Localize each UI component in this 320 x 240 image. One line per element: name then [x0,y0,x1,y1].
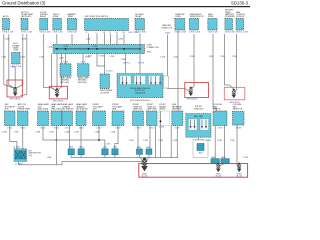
joint S1 JE03 [68,149,74,155]
JE02 cell 1 [15,151,20,159]
svg-text:1.25B: 1.25B [48,47,53,49]
wire E02 pin3 to JM01 [110,34,112,45]
header rule [0,6,250,7]
wire S1 to bus [70,155,72,158]
svg-text:7 E43: 7 E43 [63,62,69,64]
label label E43 [60,76,72,83]
junction JM01-4 [123,48,125,50]
connector R4 E22 [51,111,62,126]
svg-text:1.25B: 1.25B [232,56,237,58]
wire E25 to JE02 [22,126,24,149]
label label cluster [100,90,113,94]
label label E02 big [85,16,109,18]
connector E28 [189,19,198,31]
wire E02 pin5 to JM01 [123,34,125,45]
wire JE02 to bus [19,162,145,166]
label label R8 E18 [112,104,123,110]
svg-text:2 E24: 2 E24 [7,128,13,130]
joint connector JM01 band [53,45,145,54]
E11 pin 1 [190,120,192,129]
svg-text:1.25B: 1.25B [95,132,100,134]
connector box JE07 [193,140,208,157]
wire E02 pin0 to JM01 [88,34,90,45]
junction box E11 [186,114,211,138]
svg-text:1.25B: 1.25B [1,57,6,59]
wire E30 to GE04 [225,34,234,89]
wire E22 down [56,126,58,165]
wire E35 to JM01 [56,34,58,45]
svg-text:1.25B: 1.25B [39,57,44,59]
wire radar shield wire [160,111,162,158]
wire JM01 to GE02 a [52,54,56,91]
junction JM01-0 [56,48,58,50]
label GM03 label [142,173,148,177]
svg-text:(ACTUATOR): (ACTUATOR) [62,108,74,111]
svg-text:LAMP (LH): LAMP (LH) [133,108,143,111]
E11 pin 4 [205,120,207,129]
svg-text:A/CON: A/CON [3,15,10,18]
label label M1 [12,42,20,51]
junction box E/R [117,74,163,98]
wire E13 to S5 [137,126,139,149]
wire JM01 to E43 [65,54,67,64]
svg-text:6 M33 1.25B: 6 M33 1.25B [175,32,187,34]
wire E06 to GE01 b [9,34,15,89]
joint S5 JM03 [137,149,143,155]
label label E35 [53,14,60,18]
svg-text:Ground Distribution (3): Ground Distribution (3) [2,0,46,5]
wire E29 to R13 [213,34,217,111]
connector A/CON E06 [3,19,10,31]
wire E44b to S2 [80,126,82,149]
connector R7 E17 [93,111,106,126]
svg-text:1 E33 1.25B: 1 E33 1.25B [21,32,33,34]
wire JM01 to cluster b [97,54,105,67]
wire JM01 internal bus [55,48,142,50]
svg-text:1.25B: 1.25B [121,59,126,61]
svg-text:1.25B: 1.25B [49,132,54,134]
JE02 cell 2 [21,151,26,159]
svg-text:1.25B: 1.25B [118,39,123,41]
joint S3 JE05 [102,149,108,155]
joint S8 JM06 [221,159,229,164]
label label E34 [40,12,48,18]
label GM06 label [236,174,242,178]
svg-text:8: 8 [86,32,87,34]
svg-text:GE02 (E34): GE02 (E34) [53,101,64,103]
wire JM01 to GE02 c [58,54,62,91]
wire S2 to bus [80,155,82,158]
svg-text:(ACTUATOR): (ACTUATOR) [76,108,88,111]
label label R14 E38 [233,104,243,110]
E11 fuse cell 1 [189,119,198,130]
svg-text:1.25B: 1.25B [143,140,148,142]
svg-text:1.25B: 1.25B [36,132,41,134]
svg-text:(B+G5): (B+G5) [236,176,242,178]
junction box pin 7 [159,76,161,84]
svg-text:1.25B: 1.25B [86,39,91,41]
wire E14 pin2 down [155,126,157,158]
joint connector JE02 [14,149,27,162]
svg-text:(B+G4): (B+G4) [215,176,221,178]
highlight box GE04 [224,87,245,100]
svg-text:JE05: JE05 [103,147,107,149]
connector M33 [175,19,185,31]
wire R13b to S8 [224,126,226,159]
svg-text:3 E25: 3 E25 [20,128,26,130]
svg-text:6 E22: 6 E22 [54,128,60,130]
label label R7 E17 [93,104,104,110]
connector R5 E43b [62,111,73,126]
connector R10 E14 [147,111,158,126]
wire E31 to GE04 [234,34,236,92]
svg-text:1.25B: 1.25B [20,57,25,59]
joint S2 JE04 [78,149,84,155]
label label R5 E43b [62,103,74,110]
svg-text:1.25B: 1.25B [173,140,178,142]
label label A/CON E06 [3,15,10,18]
svg-text:JE06: JE06 [113,147,117,149]
svg-text:SNSR: SNSR [53,16,59,18]
wire E34 to GE02 [44,34,57,91]
wire E24 to JE02 [10,126,17,149]
highlight box GE01 [7,80,22,97]
highlight box GE03 [185,83,209,98]
wire E36 to JM01 [71,34,73,45]
connector E36 [67,19,76,31]
wire S8 to GM05 [218,163,225,166]
ground GE01 [13,87,17,96]
ground GM06 [237,163,241,172]
svg-text:WIPER MOTOR: WIPER MOTOR [190,16,204,18]
svg-text:RELAY: RELAY [135,15,142,18]
svg-text:MOTOR: MOTOR [213,109,221,111]
junction box pin 1 [122,76,124,84]
wire S4 to bus [114,155,116,158]
svg-text:1 E29 0.5B: 1 E29 0.5B [208,32,219,34]
svg-text:1.25B: 1.25B [106,144,111,146]
connector R14 E38 [233,112,245,126]
label label R3 E21 [38,103,50,110]
svg-text:LAMP (LH): LAMP (LH) [172,108,182,111]
connector R6 E44b [76,111,86,126]
label label R6 E44b [76,103,88,110]
label label E46 [135,14,144,18]
svg-text:1.25B: 1.25B [2,132,7,134]
svg-text:16 I/P-E: 16 I/P-E [123,63,131,65]
svg-text:1.25B: 1.25B [59,58,64,60]
svg-text:LAMP (RH): LAMP (RH) [147,108,157,111]
svg-text:2 E35 0.5B: 2 E35 0.5B [53,32,64,34]
label label R1 E24 [5,104,16,110]
wire S5 to GM03 [139,154,143,161]
wire E02 pin2 to JM01 [104,34,106,45]
svg-text:2 E37: 2 E37 [217,128,223,130]
svg-text:RESISTOR: RESISTOR [233,109,243,111]
connector R12 E09 [172,111,183,126]
svg-text:1 E38: 1 E38 [236,128,242,130]
connector R11 front radar [159,111,170,126]
wire R13 to S7 [214,126,216,159]
connector R9 E13 [133,111,144,126]
connector E30 [225,19,233,31]
svg-text:JM01: JM01 [147,51,153,53]
label label R2 E25 [18,103,31,110]
junction JM01-1 [65,48,67,50]
label GM05 label [215,174,221,178]
svg-text:(RH): (RH) [112,109,116,111]
svg-text:(W/O HID): (W/O HID) [78,82,87,84]
connector E35 [53,19,62,31]
wire JB2 to JE02b [198,137,200,143]
wire E21 join [43,126,57,141]
svg-text:5 E09: 5 E09 [175,128,181,130]
connector E34 [40,19,48,31]
svg-text:SNSR: SNSR [68,16,74,18]
svg-text:2 E18: 2 E18 [115,128,121,130]
svg-text:E02 1.25B: E02 1.25B [129,32,139,34]
svg-text:(HALOGEN): (HALOGEN) [51,108,62,111]
wire E33 to GE01 [16,34,23,89]
svg-text:(I/P): (I/P) [29,155,33,157]
wire E02 pin4 to JM01 [116,34,118,45]
svg-text:CLUSTER: CLUSTER [100,92,109,94]
svg-text:SD130-3: SD130-3 [231,0,249,5]
joint S4 JE06 [112,149,118,155]
joint JE07 square [197,144,204,151]
wire E33 pin2 down [21,34,27,96]
wire E28 to GE03 [191,34,194,89]
label JB2 tiny text [194,115,203,118]
label label E29 [208,13,214,18]
E11 pin 2 [194,120,196,129]
svg-text:1.25B: 1.25B [209,56,214,58]
svg-text:1 E36 0.5B: 1 E36 0.5B [67,32,78,34]
label M32 desc [161,24,173,29]
svg-text:(WIDE): (WIDE) [159,109,166,111]
svg-text:E/R JUNCTION BOX: E/R JUNCTION BOX [130,100,150,102]
label label E36 [68,13,77,18]
junction box pin 2 [126,76,128,84]
connector E33 [21,19,28,31]
label JM01 name [147,45,160,49]
wire R12 pin1 down [170,126,172,158]
connector R2 E25 [18,111,29,126]
label label R12 E09 [172,104,183,110]
svg-text:CONNECTOR: CONNECTOR [161,27,173,29]
wire E20 to GE01 [14,68,16,87]
svg-text:4 E28 1.25B: 4 E28 1.25B [189,32,201,34]
connector R1 E24 [5,111,16,126]
svg-text:(W/O HID): (W/O HID) [60,82,69,84]
connector R8 E18 [112,111,124,126]
connector E44 [78,64,90,77]
connector R3 E21 [38,111,49,126]
label label JB2 [194,106,204,110]
junction JM01-3 [96,48,98,50]
svg-text:12 JE02: 12 JE02 [13,146,21,148]
svg-text:1.25B: 1.25B [173,57,178,59]
label label R10 E14 [147,104,157,110]
junction box fuse cell 1 [120,76,131,85]
svg-text:(HALOGEN): (HALOGEN) [38,108,49,111]
label label R11 radar [159,104,166,110]
svg-text:1.25B: 1.25B [22,39,27,41]
wire E43b to S1 [69,126,71,149]
connector M4 cluster [100,74,110,89]
svg-text:4 E44: 4 E44 [78,128,84,130]
wire E46 through JM01 [139,34,141,74]
svg-text:3 E06 1.25B: 3 E06 1.25B [2,32,14,34]
joint S7 JM05 [211,159,219,164]
joint S6 JM04 [146,149,152,155]
svg-text:CONN: CONN [175,16,181,18]
svg-text:1 E47: 1 E47 [159,126,165,128]
svg-text:2 E13: 2 E13 [135,128,141,130]
connector R13 E37 [213,111,227,126]
highlight box GE02 [49,86,67,99]
svg-text:1.25B: 1.25B [111,132,116,134]
svg-text:1.25B: 1.25B [85,57,90,59]
svg-text:1.25B: 1.25B [5,39,10,41]
junction box fuse cell 2 [134,76,146,85]
svg-text:1.25B: 1.25B [217,140,222,142]
svg-text:1.25B: 1.25B [63,46,68,48]
junction bus2 [98,139,100,141]
svg-text:CONNECTOR: CONNECTOR [147,47,160,49]
svg-text:22 M01: 22 M01 [106,71,114,73]
svg-text:1.25B: 1.25B [110,56,115,58]
label label E33 [21,11,33,18]
svg-text:CURRENT): CURRENT) [225,16,235,18]
wire JM01 to GE02 b [56,54,58,90]
ground GE04 [232,89,236,98]
E11 fuse cell 2 [200,119,209,130]
ground GM03 [141,158,147,171]
connector E46 [135,19,145,31]
svg-text:9 I/P-E: 9 I/P-E [138,63,145,65]
svg-text:1.25B: 1.25B [158,140,163,142]
svg-text:SNSR: SNSR [208,16,214,18]
svg-text:MULTIFUNCTION SWITCH: MULTIFUNCTION SWITCH [85,16,109,18]
svg-text:1 M32: 1 M32 [165,33,171,35]
wire M32 to GE03 [168,35,190,93]
svg-text:2 E17: 2 E17 [96,128,102,130]
E11 pin 3 [201,120,203,129]
connector E31 [236,19,244,31]
wire bus to S3 [57,140,105,149]
svg-text:38 E31 1.25B: 38 E31 1.25B [236,32,249,34]
wire E06 to GE01 a [4,34,15,89]
svg-text:JE04: JE04 [79,147,83,149]
svg-text:(AUTO A/C): (AUTO A/C) [21,15,31,18]
wire M33 to R12 [177,31,179,112]
label JE02 desc [29,151,42,157]
svg-text:7 E44: 7 E44 [80,62,86,64]
junction box pin 5 [150,76,152,84]
svg-text:2 E30 0.5B: 2 E30 0.5B [225,32,236,34]
wire JM01 to E44 [82,54,84,64]
junction box pin 4 [140,76,142,84]
wire bus y157.6 [141,157,178,159]
label label M33 [175,13,185,18]
svg-text:MODULE: MODULE [236,16,245,18]
wire JM01 to cluster [104,54,106,75]
label label E44 [78,76,90,83]
svg-text:(LH): (LH) [5,109,9,111]
svg-text:(B+G2): (B+G2) [142,176,148,178]
junction radar junction [160,120,162,122]
label label E30 [225,9,235,19]
svg-text:1.25B: 1.25B [190,56,195,58]
label label E28 [190,14,204,18]
svg-text:30A 20A 10A: 30A 20A 10A [135,91,146,94]
svg-text:GE01 (E15): GE01 (E15) [10,99,21,101]
svg-text:CONN: CONN [13,50,19,52]
svg-text:GE03 (E19): GE03 (E19) [187,99,198,101]
svg-text:9: 9 [96,32,97,34]
wire bus157 left [71,157,141,159]
svg-text:FUSE BOX: FUSE BOX [194,108,204,110]
svg-text:JE03: JE03 [69,147,73,149]
junction JM01-2 [88,48,90,50]
wire JM01 to junction box [125,54,127,74]
connector stub box [164,76,169,88]
junction box fuse cell 3 [149,76,161,85]
svg-text:1.25B: 1.25B [74,132,79,134]
svg-text:JE02: JE02 [198,153,202,155]
label label E31 [236,11,245,18]
svg-text:1.25B: 1.25B [160,57,165,59]
ground GM05 [216,163,220,172]
junction JM01-5 [139,48,141,50]
wire S7 to GM05 [215,163,218,166]
svg-text:9 JM01: 9 JM01 [99,56,105,58]
svg-text:PRESS SNSR: PRESS SNSR [18,109,31,111]
svg-text:(LH): (LH) [93,109,97,111]
connector E02 big [85,19,129,31]
label label R9 E13 [133,104,143,110]
svg-text:1.25B: 1.25B [129,140,134,142]
svg-text:1.25B: 1.25B [243,157,248,159]
svg-text:1.25B: 1.25B [65,132,70,134]
junction box pin 3 [136,76,138,84]
connector E43 [60,64,71,77]
svg-text:1.25B: 1.25B [206,140,211,142]
wire E14 to S6 [149,126,151,149]
svg-text:1.25B: 1.25B [11,67,16,69]
junction box pin 6 [155,76,157,84]
ground GE03 [189,87,193,96]
highlight box GM row [139,164,248,178]
svg-text:1.25B: 1.25B [47,157,52,159]
wire R14 to GM06 [237,125,239,168]
connector E29 [208,19,217,31]
label label R4 E22 [51,103,63,110]
ground GE02 [55,88,59,97]
svg-text:RELAY: RELAY [40,15,47,18]
label junction box text [130,87,150,95]
label label R13 E37 [213,104,222,110]
svg-text:1.25B: 1.25B [14,132,19,134]
svg-text:4 E34 1.25B: 4 E34 1.25B [39,32,51,34]
connector M1 E20 [12,53,21,65]
junction bus1 [56,139,58,141]
wire E17 join [98,126,100,141]
wire R12 down [176,126,178,158]
svg-text:1.25B: 1.25B [93,46,98,48]
wire E18 to S4 [115,126,118,149]
